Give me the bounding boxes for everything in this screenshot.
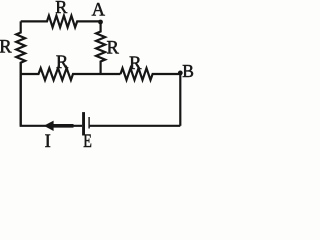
node A junction dot [98,20,103,25]
wire bottom right segment [90,125,181,127]
resistor R2 (left vertical) [16,21,25,125]
svg-text:A: A [92,0,106,20]
svg-text:B: B [182,61,194,81]
resistor R3 (vertical below node A) [96,22,105,74]
svg-text:R: R [107,39,120,59]
resistor R1 (top) [21,16,101,28]
svg-text:I: I [45,132,51,149]
battery E negative plate (tall thick) [82,112,85,135]
wire right edge [179,73,181,125]
svg-text:R: R [55,0,67,17]
battery E positive plate (short thin) [88,117,89,129]
resistor R5 (middle-right) [121,68,181,80]
current arrow I (pointing left) [53,124,74,128]
svg-text:R: R [129,54,142,74]
node B junction dot [178,71,183,76]
svg-text:R: R [0,38,12,58]
wire bottom left segment [21,62,82,126]
resistor R4 (middle-left) [21,68,121,80]
svg-text:R: R [56,53,69,73]
svg-text:E: E [83,132,92,149]
